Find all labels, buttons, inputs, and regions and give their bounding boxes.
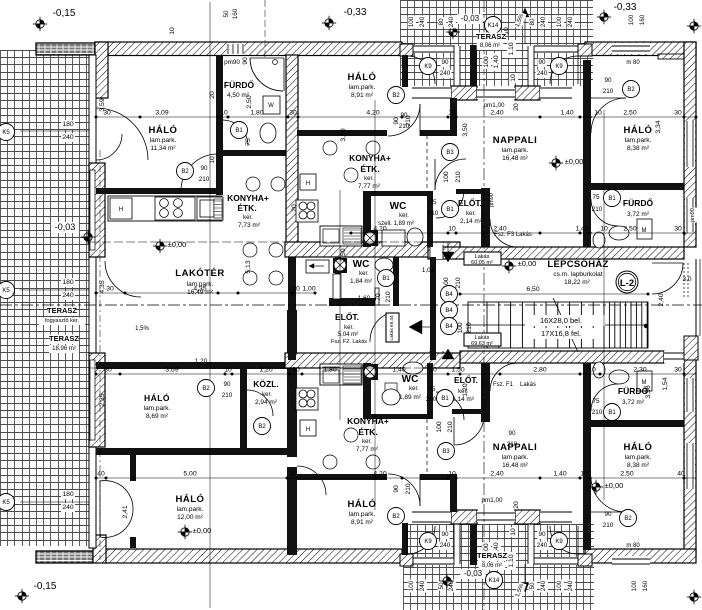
svg-text:160: 160 xyxy=(232,8,239,19)
svg-text:8,06 m²: 8,06 m² xyxy=(480,43,500,49)
svg-text:1,00: 1,00 xyxy=(302,286,315,293)
svg-text:210: 210 xyxy=(603,522,614,529)
svg-text:1,20: 1,20 xyxy=(259,367,272,374)
door arc ELOT entry xyxy=(436,190,464,218)
svg-text:Fsz. F1: Fsz. F1 xyxy=(493,382,514,388)
svg-text:10: 10 xyxy=(594,110,602,117)
porch inner wall left bottom xyxy=(470,524,477,565)
door arc ELOT2 xyxy=(370,313,389,342)
wall HALO/FURDO divider top xyxy=(591,183,684,190)
bottom-right exterior wall xyxy=(585,549,696,563)
wall HALO/FURDO divider bottom xyxy=(591,420,684,427)
dim chain y478 xyxy=(96,477,696,479)
door arc B2 halo891 bottom xyxy=(388,474,420,506)
svg-text:3,69: 3,69 xyxy=(165,367,178,374)
svg-text:HÁLÓ: HÁLÓ xyxy=(144,392,170,403)
svg-text:30: 30 xyxy=(289,471,297,478)
corridor dashed edge bottom xyxy=(426,419,428,475)
svg-text:240: 240 xyxy=(567,580,574,591)
right exterior wall lower xyxy=(684,359,696,555)
svg-text:210: 210 xyxy=(399,123,410,130)
svg-text:240: 240 xyxy=(537,70,548,77)
svg-text:pm1,00: pm1,00 xyxy=(483,102,505,109)
top terrace paving grid xyxy=(400,0,593,86)
svg-text:lam.park.: lam.park. xyxy=(144,405,171,412)
svg-text:240: 240 xyxy=(62,292,74,299)
wall ELOT-b bottom xyxy=(452,409,484,414)
svg-text:10: 10 xyxy=(580,471,588,478)
door arc K9 top-right xyxy=(550,56,578,84)
svg-text:90: 90 xyxy=(441,59,449,66)
svg-text:±0,00: ±0,00 xyxy=(518,259,537,268)
stairwell bottom wall xyxy=(460,351,664,363)
FURDO-tr sink xyxy=(609,226,629,240)
wall F2 corridor right xyxy=(430,257,436,360)
FURDO shower arc xyxy=(250,58,283,91)
svg-text:10: 10 xyxy=(429,367,437,374)
svg-text:K9: K9 xyxy=(555,539,563,545)
svg-text:100: 100 xyxy=(443,171,450,183)
svg-text:4,20: 4,20 xyxy=(373,226,386,233)
svg-text:10: 10 xyxy=(448,471,456,478)
FURDO-tr toilet xyxy=(593,232,605,248)
bottom-left fence wall xyxy=(36,551,93,563)
svg-text:10: 10 xyxy=(209,156,216,164)
stair upper flight dashed xyxy=(466,324,648,326)
porch step wall left top xyxy=(450,98,457,136)
svg-text:18,96 m²: 18,96 m² xyxy=(52,346,76,352)
svg-text:W: W xyxy=(268,103,274,109)
porch door pm1,00 bottom xyxy=(477,511,515,522)
svg-text:2,40: 2,40 xyxy=(490,471,503,478)
svg-text:lam.park.: lam.park. xyxy=(625,454,652,461)
right landing xyxy=(684,336,698,360)
svg-text:B3: B3 xyxy=(446,150,454,156)
svg-text:30: 30 xyxy=(674,226,682,233)
svg-text:180: 180 xyxy=(62,279,74,286)
svg-text:90: 90 xyxy=(200,165,208,172)
wall nappali west upper xyxy=(450,98,457,136)
porch window lines bottom xyxy=(412,511,451,523)
svg-text:B2: B2 xyxy=(627,87,635,93)
svg-text:5,13: 5,13 xyxy=(245,260,252,273)
terrace arrow top xyxy=(521,8,529,17)
svg-text:100: 100 xyxy=(408,580,415,591)
svg-text:B4: B4 xyxy=(445,292,453,298)
wall WC left xyxy=(363,191,371,247)
svg-text:210: 210 xyxy=(592,206,603,213)
entry arrow bottom apt xyxy=(442,349,454,359)
svg-text:8,38 m²: 8,38 m² xyxy=(627,145,650,152)
wall F2 left xyxy=(288,257,296,360)
svg-text:FÜRDŐ: FÜRDŐ xyxy=(623,197,654,208)
door arc top-right HALO xyxy=(591,98,626,133)
svg-text:±0,00: ±0,00 xyxy=(565,157,584,166)
svg-text:2,80: 2,80 xyxy=(533,367,546,374)
svg-text:K5: K5 xyxy=(2,130,10,136)
svg-text:90: 90 xyxy=(604,77,612,84)
door arc HALO1 xyxy=(181,154,218,191)
svg-text:NAPPALI: NAPPALI xyxy=(493,135,538,146)
svg-text:40: 40 xyxy=(97,471,105,478)
svg-text:4,35: 4,35 xyxy=(99,280,106,293)
svg-text:90: 90 xyxy=(604,511,612,518)
svg-text:90: 90 xyxy=(538,531,546,538)
svg-text:KÖZL.: KÖZL. xyxy=(253,379,279,389)
svg-text:B4: B4 xyxy=(445,308,453,314)
door arc FURDO-tr xyxy=(591,199,618,226)
svg-text:Lakás: Lakás xyxy=(520,382,536,388)
svg-text:30: 30 xyxy=(104,367,112,374)
FURDO-br M box xyxy=(637,371,652,391)
svg-text:3,72 m²: 3,72 m² xyxy=(627,211,650,218)
top terrace parapet xyxy=(402,45,455,53)
wall FURDO/kitchen right hatched xyxy=(286,55,298,247)
svg-text:210: 210 xyxy=(466,322,473,334)
svg-text:lam.park.: lam.park. xyxy=(502,454,529,461)
svg-text:-0,03: -0,03 xyxy=(464,569,483,578)
svg-text:K9: K9 xyxy=(424,64,432,70)
stairwell exit door xyxy=(652,263,683,294)
svg-text:H: H xyxy=(306,181,310,187)
svg-text:1,20: 1,20 xyxy=(462,383,469,396)
washing machine W xyxy=(263,96,280,114)
svg-text:K9: K9 xyxy=(424,539,432,545)
svg-text:20: 20 xyxy=(291,204,298,212)
svg-text:3,50: 3,50 xyxy=(462,123,469,136)
svg-text:10: 10 xyxy=(224,367,232,374)
svg-text:100: 100 xyxy=(631,580,638,591)
entry step F2 xyxy=(306,260,329,273)
svg-text:-0,03: -0,03 xyxy=(55,222,76,232)
svg-text:100: 100 xyxy=(408,16,415,27)
svg-text:K14: K14 xyxy=(489,578,500,584)
WC washbasin xyxy=(382,230,405,246)
porch step wall left bottom xyxy=(450,474,457,512)
door arc K9 top-left xyxy=(407,56,435,84)
FURDO sink xyxy=(260,123,276,143)
svg-text:69,63 m²: 69,63 m² xyxy=(471,341,493,347)
svg-text:pm90: pm90 xyxy=(690,208,696,222)
door arc left wall lower xyxy=(105,261,141,297)
left exterior wall xyxy=(89,55,96,548)
svg-text:1,84 m²: 1,84 m² xyxy=(350,278,373,285)
svg-text:1,40: 1,40 xyxy=(575,226,588,233)
wall halo-8,69 top xyxy=(96,362,292,369)
wall WC2 left xyxy=(335,257,341,306)
svg-text:KONYHA+: KONYHA+ xyxy=(349,153,391,163)
porch inner wall left top xyxy=(470,45,477,86)
svg-text:12,00 m²: 12,00 m² xyxy=(177,514,203,521)
wall WC2 right xyxy=(393,257,399,306)
svg-text:10: 10 xyxy=(510,74,517,82)
svg-text:FÜRDŐ: FÜRDŐ xyxy=(618,385,649,396)
door arc B2 halo891 xyxy=(388,104,420,136)
svg-text:2,50: 2,50 xyxy=(246,95,253,108)
svg-text:80: 80 xyxy=(529,18,536,26)
svg-text:210: 210 xyxy=(455,277,462,289)
top terrace side walls xyxy=(454,46,460,86)
door arc halo12 right xyxy=(297,466,326,495)
svg-text:240: 240 xyxy=(540,16,547,27)
center axis dashed xyxy=(0,304,702,306)
svg-text:-0,03: -0,03 xyxy=(461,14,480,23)
svg-text:B2: B2 xyxy=(258,424,266,430)
svg-text:H: H xyxy=(119,207,123,213)
wall FURDO bottom xyxy=(222,150,286,156)
svg-text:ÉTK.: ÉTK. xyxy=(237,203,256,213)
svg-text:HÁLÓ: HÁLÓ xyxy=(624,441,653,453)
door arc left wall upper xyxy=(96,108,148,160)
wall halo12 left upper xyxy=(130,455,136,481)
kitchen counter left apartment xyxy=(108,196,222,221)
FURDO-br toilet xyxy=(593,362,605,378)
svg-text:H: H xyxy=(306,427,310,433)
WC toilet bottom xyxy=(382,389,400,405)
svg-text:B2: B2 xyxy=(392,93,400,99)
svg-text:210: 210 xyxy=(428,210,439,217)
stairwell top wall xyxy=(428,247,684,259)
svg-text:70: 70 xyxy=(375,293,382,301)
svg-text:1,40: 1,40 xyxy=(392,367,405,374)
svg-text:2,41: 2,41 xyxy=(122,505,129,518)
svg-text:HÁLÓ: HÁLÓ xyxy=(149,124,178,136)
svg-text:±0,00: ±0,00 xyxy=(193,526,212,535)
dining chairs bottom apt xyxy=(323,455,337,469)
WC toilet bottom cistern xyxy=(385,383,397,391)
svg-text:90: 90 xyxy=(242,57,249,65)
svg-text:Lakás 69,44: Lakás 69,44 xyxy=(389,315,394,340)
svg-text:ÉTK.: ÉTK. xyxy=(360,164,379,174)
bottom-left corner block xyxy=(93,535,106,563)
svg-text:B3: B3 xyxy=(442,449,450,455)
svg-text:lam.park.: lam.park. xyxy=(349,511,376,518)
svg-text:210: 210 xyxy=(199,176,210,183)
svg-text:100: 100 xyxy=(483,56,490,68)
svg-text:3,09: 3,09 xyxy=(155,110,168,117)
wall HALO-right west xyxy=(583,60,591,247)
svg-text:3,72 m²: 3,72 m² xyxy=(622,399,645,406)
svg-text:1,60: 1,60 xyxy=(358,295,371,302)
wall HALO1 right xyxy=(216,55,223,195)
wall WC2 bottom xyxy=(329,298,375,306)
svg-text:80: 80 xyxy=(438,18,445,26)
svg-text:180: 180 xyxy=(62,121,74,128)
svg-text:8,91 m²: 8,91 m² xyxy=(351,519,374,526)
svg-text:ELŐT.: ELŐT. xyxy=(454,374,478,385)
door arc FURDO entry xyxy=(222,120,248,146)
window right wall pm90 bottom xyxy=(685,378,695,412)
bottom terrace side walls xyxy=(454,524,460,564)
svg-text:lam.park.: lam.park. xyxy=(150,137,177,144)
svg-text:210: 210 xyxy=(455,171,462,183)
svg-text:B1: B1 xyxy=(446,207,454,213)
svg-text:lam.park.: lam.park. xyxy=(625,137,652,144)
apartment divider wall lower xyxy=(285,353,460,368)
svg-text:60,05 m²: 60,05 m² xyxy=(471,260,493,266)
svg-text:B2: B2 xyxy=(392,514,400,520)
apartment divider wall upper xyxy=(285,242,460,257)
svg-text:75: 75 xyxy=(429,199,437,206)
porch wall stubs bottom xyxy=(451,510,477,524)
FURDO-tr M box xyxy=(637,219,652,239)
svg-text:210: 210 xyxy=(426,396,437,403)
svg-text:3,59: 3,59 xyxy=(99,98,106,111)
svg-text:-0,33: -0,33 xyxy=(614,2,637,13)
door arc ELOT-NAPPALI bottom xyxy=(490,363,518,391)
area box Lakas 69,44 xyxy=(386,313,399,342)
svg-text:WC: WC xyxy=(353,259,370,270)
svg-text:TERASZ: TERASZ xyxy=(477,551,507,560)
WC2 pipe duct xyxy=(333,274,341,299)
svg-text:240: 240 xyxy=(419,16,426,27)
svg-text:2,40: 2,40 xyxy=(658,293,665,306)
svg-text:FÜRDŐ: FÜRDŐ xyxy=(224,79,255,90)
area box Lakas 60,05 xyxy=(464,252,501,265)
svg-text:L-2: L-2 xyxy=(620,278,634,289)
svg-text:-0,15: -0,15 xyxy=(34,581,57,592)
svg-text:B1: B1 xyxy=(235,128,243,134)
left wall hatched segment upper xyxy=(89,163,105,257)
wall HALO1 bottom2 xyxy=(96,188,222,194)
svg-text:10: 10 xyxy=(600,226,608,233)
svg-text:TERASZ: TERASZ xyxy=(47,306,77,315)
svg-text:TERASZ: TERASZ xyxy=(476,32,506,41)
svg-text:16,48 m²: 16,48 m² xyxy=(502,462,528,469)
svg-text:3,50: 3,50 xyxy=(340,248,347,261)
wall ELOT right xyxy=(481,188,490,247)
svg-text:-0,15: -0,15 xyxy=(53,8,76,19)
wall HALO-8,91 bottom xyxy=(297,130,457,136)
svg-text:11,34 m²: 11,34 m² xyxy=(150,145,176,152)
svg-text:75: 75 xyxy=(592,398,600,405)
svg-text:HÁLÓ: HÁLÓ xyxy=(348,498,377,510)
stair window gap xyxy=(664,351,684,363)
svg-text:4,20: 4,20 xyxy=(366,110,379,117)
dim chain y117 xyxy=(96,116,696,118)
right wall window upper xyxy=(685,121,695,167)
svg-text:75: 75 xyxy=(245,138,252,146)
svg-text:30: 30 xyxy=(674,110,682,117)
svg-text:K5: K5 xyxy=(2,288,10,294)
porch edge wall left top xyxy=(402,55,408,87)
stair flight outline xyxy=(468,302,648,348)
svg-text:WC: WC xyxy=(390,201,407,212)
WC shaft xyxy=(363,230,378,246)
svg-text:50: 50 xyxy=(223,10,230,18)
svg-text:B1: B1 xyxy=(608,196,616,202)
svg-text:7,77 m²: 7,77 m² xyxy=(358,183,381,190)
svg-text:2,35: 2,35 xyxy=(99,393,106,406)
svg-text:30: 30 xyxy=(292,367,300,374)
svg-text:240: 240 xyxy=(448,16,455,27)
wall WC-b left xyxy=(363,363,371,419)
svg-text:240: 240 xyxy=(62,134,74,141)
area box Lakas 69,63 xyxy=(464,333,501,346)
svg-text:10: 10 xyxy=(448,226,456,233)
svg-text:pm90: pm90 xyxy=(489,193,495,207)
svg-text:ker.: ker. xyxy=(262,392,272,398)
svg-text:100: 100 xyxy=(556,16,563,27)
bottom terrace paving grid xyxy=(403,524,594,610)
svg-text:1,40: 1,40 xyxy=(553,471,566,478)
dining chairs left apt xyxy=(246,177,260,191)
svg-text:240: 240 xyxy=(537,542,548,549)
wall KOZL left xyxy=(240,369,247,455)
svg-text:3,56: 3,56 xyxy=(645,385,652,398)
top-right exterior wall xyxy=(585,42,696,56)
door arc B3 xyxy=(435,159,466,190)
svg-text:K5: K5 xyxy=(2,500,10,506)
svg-text:ELŐT.: ELŐT. xyxy=(458,197,482,208)
svg-text:90: 90 xyxy=(223,381,231,388)
svg-text:8,38 m²: 8,38 m² xyxy=(627,462,650,469)
svg-text:90: 90 xyxy=(393,485,400,493)
porch door pm1,00 top xyxy=(477,88,515,99)
svg-text:10: 10 xyxy=(292,286,300,293)
porch window lines top xyxy=(412,87,451,99)
wall HALO-right west bottom xyxy=(583,363,591,550)
svg-text:160: 160 xyxy=(642,580,649,591)
svg-text:100: 100 xyxy=(457,322,464,334)
top-left corner block xyxy=(95,42,108,98)
svg-text:210: 210 xyxy=(385,291,392,303)
svg-text:75: 75 xyxy=(592,194,600,201)
svg-text:1,80: 1,80 xyxy=(250,110,263,117)
svg-text:10: 10 xyxy=(169,27,176,35)
svg-text:B4: B4 xyxy=(445,324,453,330)
svg-text:2,40: 2,40 xyxy=(493,226,506,233)
svg-text:240: 240 xyxy=(62,504,74,511)
svg-text:ker.: ker. xyxy=(359,271,369,277)
svg-text:HÁLÓ: HÁLÓ xyxy=(176,493,205,505)
svg-text:B2: B2 xyxy=(202,386,210,392)
F1 entry door gap xyxy=(430,351,443,367)
wall WC-b right xyxy=(427,363,433,419)
entry arrow mid apt xyxy=(409,320,422,334)
svg-text:1,40: 1,40 xyxy=(493,55,500,68)
svg-text:K14: K14 xyxy=(488,23,499,29)
svg-text:ÉTK.: ÉTK. xyxy=(358,427,377,437)
svg-text:1,20: 1,20 xyxy=(195,358,208,365)
top-right corner step xyxy=(658,54,684,59)
svg-text:210: 210 xyxy=(603,88,614,95)
door arc FURDO-br xyxy=(591,384,618,411)
F3 entry door gap xyxy=(430,243,443,259)
terrace down arrow bottom xyxy=(521,583,529,592)
svg-text:100: 100 xyxy=(628,14,635,25)
svg-text:pm1,00: pm1,00 xyxy=(481,497,503,504)
svg-text:cs.m. lapburkolat: cs.m. lapburkolat xyxy=(553,271,602,278)
stair break line xyxy=(553,298,578,352)
svg-text:ker.: ker. xyxy=(409,386,419,392)
svg-text:TERASZ: TERASZ xyxy=(49,334,79,343)
svg-text:Fsz. F2. Lakás: Fsz. F2. Lakás xyxy=(331,339,367,345)
svg-text:90: 90 xyxy=(538,59,546,66)
svg-text:8,91 m²: 8,91 m² xyxy=(351,92,374,99)
door arc ELOT entry bottom xyxy=(436,392,464,420)
svg-text:ker.: ker. xyxy=(364,176,374,182)
svg-text:2,50: 2,50 xyxy=(623,226,636,233)
door gap white xyxy=(387,129,420,137)
wall halo12 left lower xyxy=(130,537,136,548)
svg-text:1,10: 1,10 xyxy=(508,554,515,567)
svg-text:90: 90 xyxy=(441,531,449,538)
window right wall pm90 top xyxy=(685,198,695,232)
svg-text:20: 20 xyxy=(513,103,520,111)
svg-text:10: 10 xyxy=(220,110,228,117)
window bottom-right m80 xyxy=(612,556,650,567)
